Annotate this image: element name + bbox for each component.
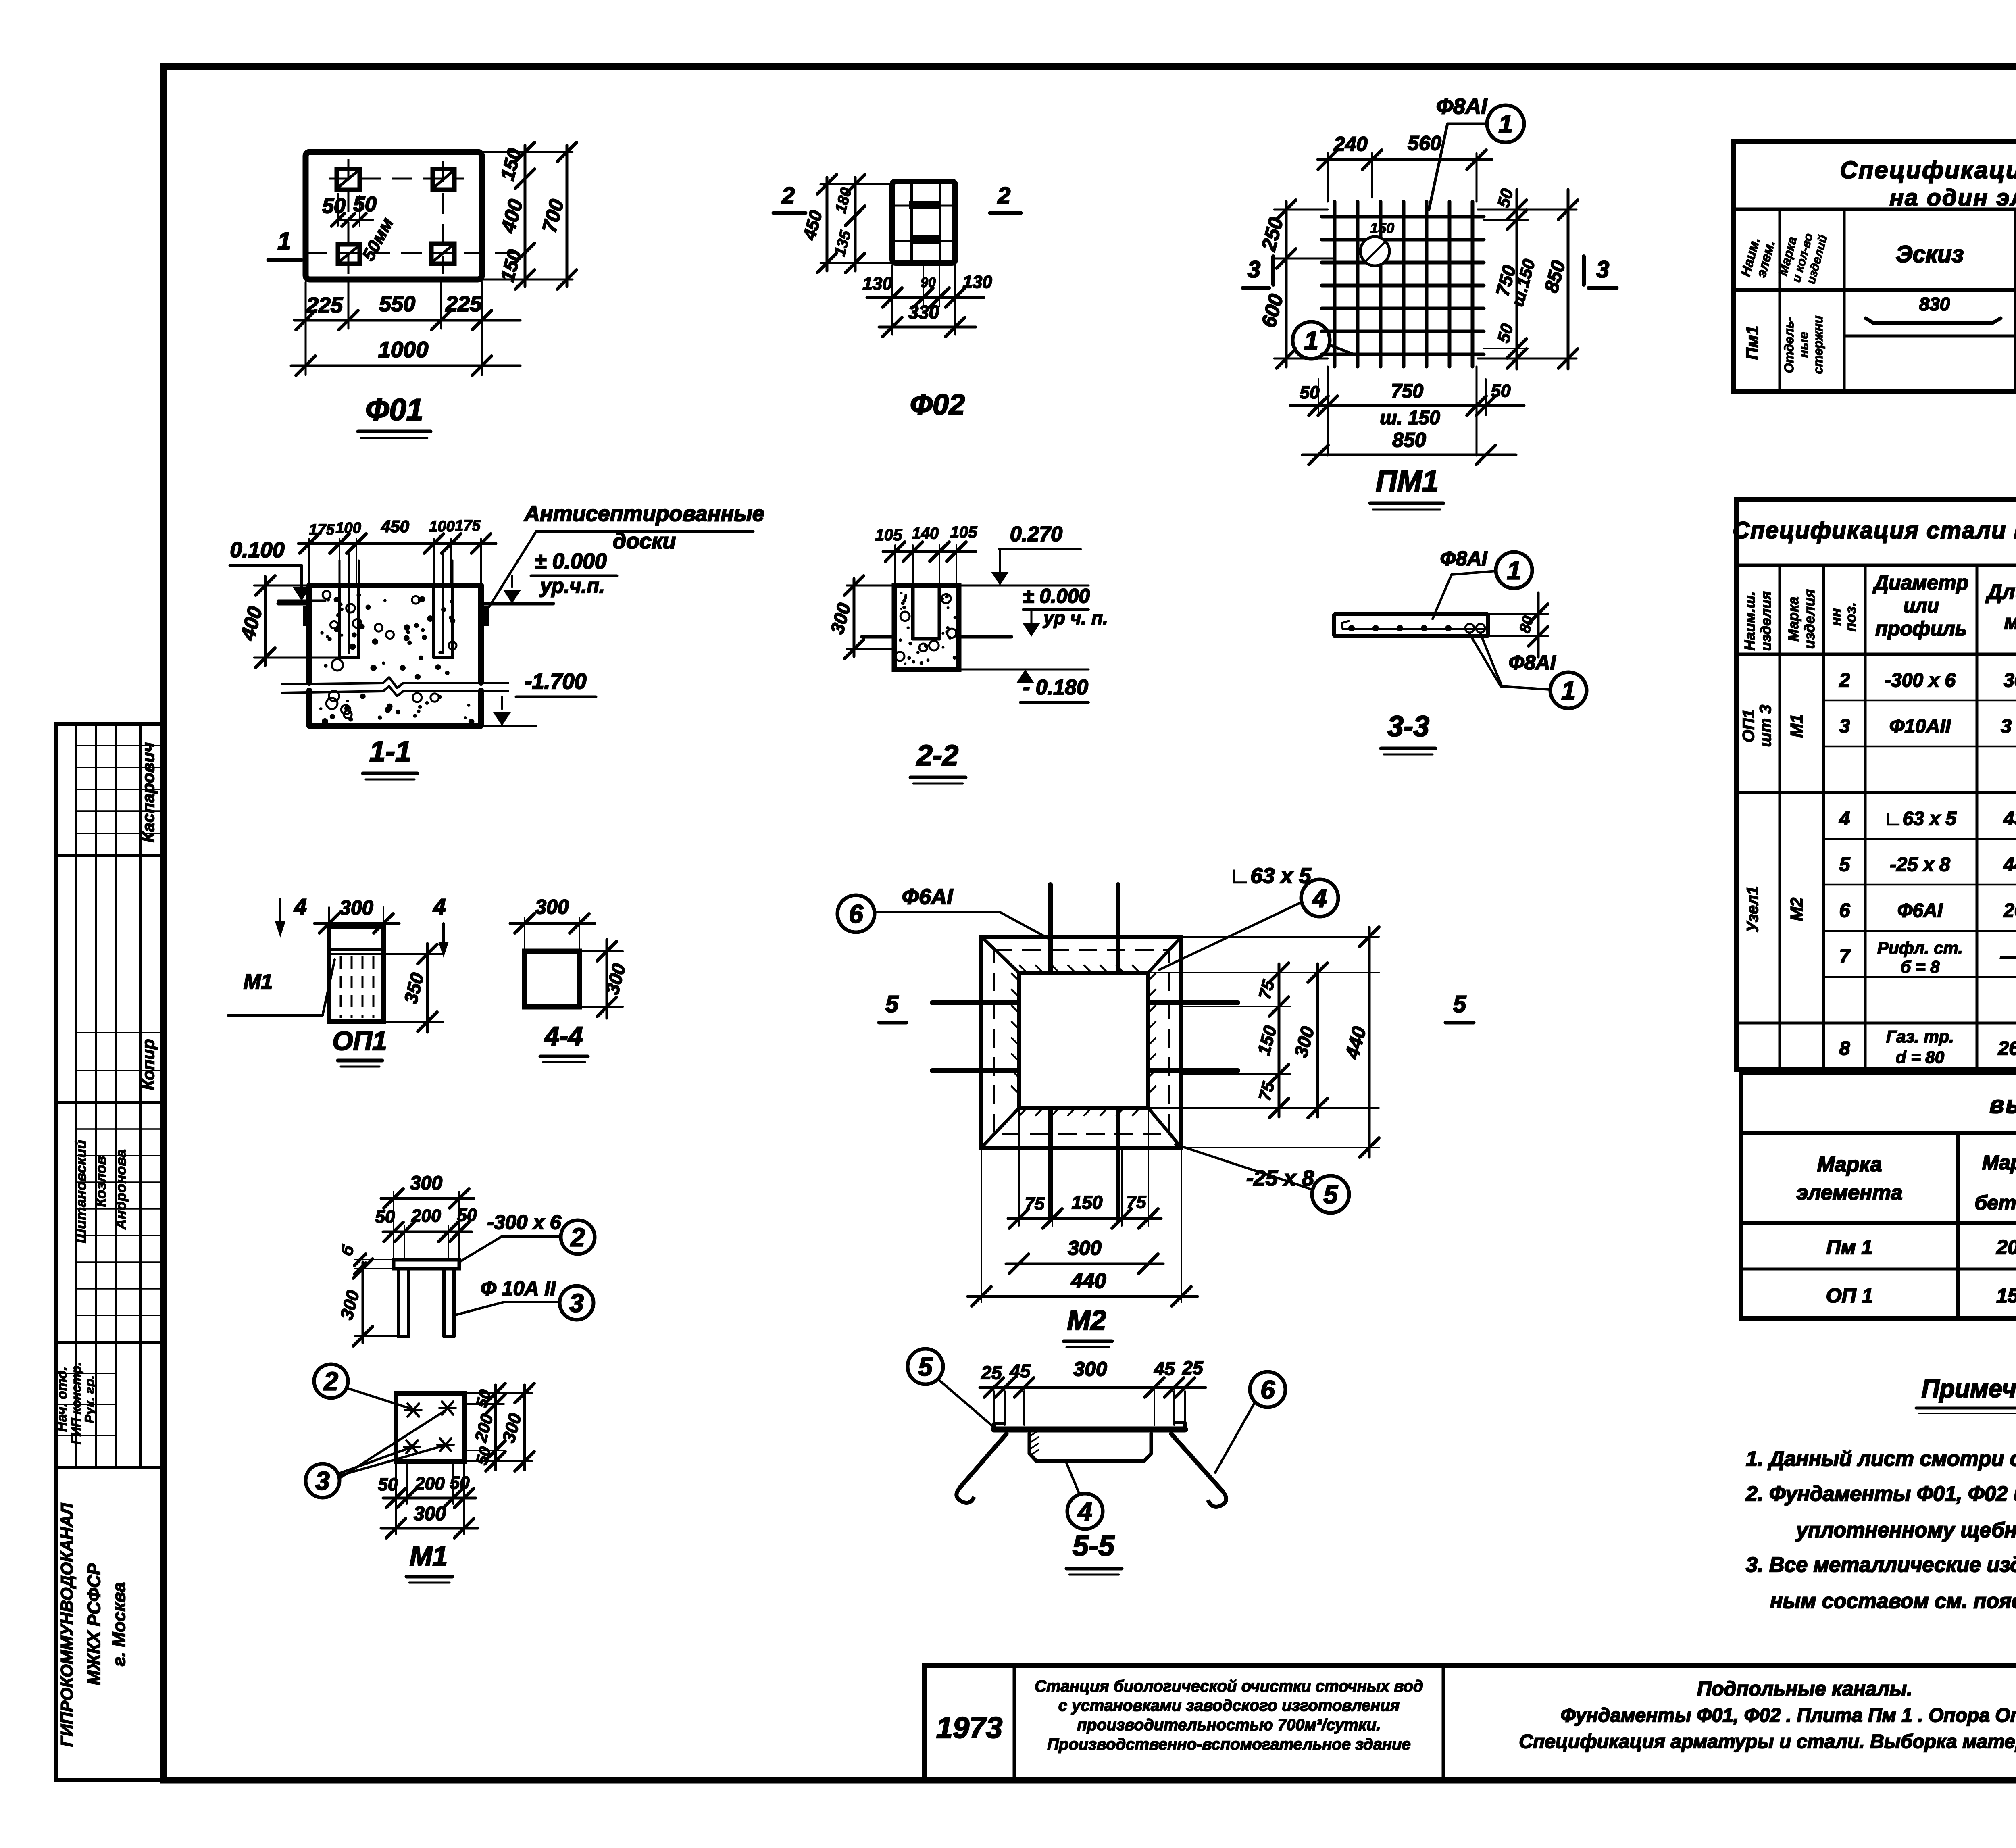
svg-text:1: 1 xyxy=(1304,326,1318,355)
svg-text:50: 50 xyxy=(375,1207,395,1227)
reinforcing mesh ПМ1 bars xyxy=(1333,202,1337,367)
svg-text:200: 200 xyxy=(1996,1236,2016,1258)
slab section 3-3 outline xyxy=(1334,614,1488,636)
svg-text:300: 300 xyxy=(1068,1237,1102,1259)
concrete block 1-1 outline xyxy=(309,583,481,588)
svg-text:25: 25 xyxy=(981,1362,1002,1383)
svg-text:1000: 1000 xyxy=(378,337,429,362)
svg-text:3: 3 xyxy=(1248,256,1260,283)
svg-text:М1: М1 xyxy=(410,1541,448,1571)
М1 top dim 50 200 50 xyxy=(404,1226,405,1260)
svg-text:4: 4 xyxy=(433,894,446,919)
svg-text:2: 2 xyxy=(997,183,1010,209)
svg-text:50: 50 xyxy=(450,1473,470,1493)
svg-text:7: 7 xyxy=(1839,946,1851,967)
svg-text:180: 180 xyxy=(832,186,855,215)
svg-text:Примечания.: Примечания. xyxy=(1922,1375,2016,1403)
svg-text:300: 300 xyxy=(2004,670,2016,691)
svg-text:± 0.000: ± 0.000 xyxy=(534,549,607,573)
svg-text:560: 560 xyxy=(1408,132,1441,154)
svg-text:5: 5 xyxy=(918,1352,933,1381)
svg-text:300: 300 xyxy=(410,1173,442,1194)
svg-text:225: 225 xyxy=(445,292,482,316)
Ф02 left dim 450 xyxy=(821,183,892,185)
svg-text:Ф10АII: Ф10АII xyxy=(1889,716,1951,737)
svg-text:3 00: 3 00 xyxy=(2001,716,2016,737)
М2 callout circle 6 Ф6АI xyxy=(837,895,875,932)
svg-text:150: 150 xyxy=(1072,1192,1103,1213)
3-3 rebar dots xyxy=(1343,628,1484,630)
5-5 channel below plate xyxy=(1029,1433,1151,1461)
М2 weld ticks on inner frame xyxy=(1020,965,1027,973)
ПМ1 callout circle 1 bottom-left xyxy=(1293,322,1330,359)
svg-text:Станция биологической очистки: Станция биологической очистки сточных во… xyxy=(1035,1677,1423,1695)
svg-text:нн: нн xyxy=(1827,608,1844,626)
svg-text:2. Фундаменты Ф01, Ф02 из: 2. Фундаменты Ф01, Ф02 из бетона марки 1… xyxy=(1745,1482,2016,1506)
М2 bottom dims 75 150 75 xyxy=(1018,1108,1020,1226)
4-4 top dim 300 xyxy=(524,917,525,951)
svg-text:100: 100 xyxy=(429,518,454,535)
М2 anchor rod bottom-left xyxy=(1048,1108,1053,1219)
svg-text:ГИП констр.: ГИП констр. xyxy=(69,1362,83,1444)
Ф01 bottom dim 225 550 225 xyxy=(305,282,307,375)
svg-text:50: 50 xyxy=(1493,187,1516,210)
М1 bottom view plate xyxy=(396,1393,464,1461)
svg-text:300: 300 xyxy=(499,1411,525,1445)
svg-text:550: 550 xyxy=(379,292,415,316)
ПМ1 bottom dim 850 xyxy=(1302,454,1516,456)
svg-text:Ф 10А II: Ф 10А II xyxy=(481,1277,556,1300)
svg-text:——: —— xyxy=(2000,946,2016,967)
svg-text:Ф8АI: Ф8АI xyxy=(1436,94,1487,119)
svg-text:ные: ные xyxy=(1796,332,1811,358)
М1 top view plate xyxy=(394,1260,459,1269)
svg-text:М1: М1 xyxy=(244,970,273,994)
svg-text:Фундаменты Ф01, Ф02 . Пли: Фундаменты Ф01, Ф02 . Плита Пм 1 . Опора… xyxy=(1560,1705,2016,1726)
svg-text:8: 8 xyxy=(1839,1038,1850,1059)
М2 callout circle 5 -25x8 xyxy=(1312,1176,1349,1213)
svg-text:200: 200 xyxy=(411,1206,441,1226)
table Спецификация стали xyxy=(1736,499,2016,1069)
svg-text:5-5: 5-5 xyxy=(1073,1530,1115,1562)
М1 bottom callout circle 2 xyxy=(314,1364,348,1398)
svg-text:с установками заводского изгот: с установками заводского изготовления xyxy=(1058,1697,1400,1715)
svg-text:4: 4 xyxy=(294,894,306,919)
svg-text:135: 135 xyxy=(831,229,854,258)
svg-text:производительностью 700м³/сутк: производительностью 700м³/сутки. xyxy=(1077,1716,1381,1734)
Ф02 left dim 180 135 xyxy=(854,177,857,271)
left stamp column xyxy=(56,724,163,1780)
svg-text:50: 50 xyxy=(1300,383,1320,402)
svg-text:240: 240 xyxy=(1333,133,1368,155)
М2 anchor rod bottom-right xyxy=(1116,1108,1120,1219)
М2 anchor rod left lower xyxy=(932,1068,1019,1073)
5-5 channel hatch xyxy=(1031,1431,1038,1435)
svg-text:3: 3 xyxy=(1839,716,1850,737)
М2 inner square xyxy=(1019,973,1148,1108)
М1 thickness dim 6 xyxy=(355,1259,394,1260)
svg-text:Андронова: Андронова xyxy=(112,1149,129,1230)
1-1 stipple concrete dots xyxy=(366,604,371,610)
5-5 top dims 25 45 300 45 25 xyxy=(993,1391,995,1425)
svg-text:260: 260 xyxy=(2003,900,2016,921)
svg-text:4: 4 xyxy=(1839,808,1850,829)
svg-text:ш. 150: ш. 150 xyxy=(1380,407,1440,429)
svg-text:450: 450 xyxy=(381,517,409,536)
svg-text:ур ч. п.: ур ч. п. xyxy=(1043,607,1108,628)
svg-text:Производственно-вспомогательно: Производственно-вспомогательное здание xyxy=(1047,1735,1411,1753)
svg-text:Шитановский: Шитановский xyxy=(73,1140,89,1243)
svg-text:600: 600 xyxy=(1257,292,1288,330)
svg-text:Рифл. ст.: Рифл. ст. xyxy=(1877,938,1963,957)
svg-text:Спецификация стали на одно: Спецификация стали на одно изделие xyxy=(1733,517,2016,544)
svg-text:- 0.180: - 0.180 xyxy=(1023,676,1088,699)
svg-text:ПМ1: ПМ1 xyxy=(1376,464,1439,498)
svg-text:6: 6 xyxy=(1839,900,1850,921)
svg-text:150: 150 xyxy=(1254,1023,1281,1057)
М2 anchor rod top-left xyxy=(1048,885,1053,973)
svg-text:б: б xyxy=(338,1243,358,1258)
5-5 callout circle 5 xyxy=(908,1349,943,1384)
section 1-1 top dims 175 100 450 100 175 xyxy=(308,539,310,585)
svg-text:200: 200 xyxy=(414,1474,445,1494)
Ф02 inner lines xyxy=(910,183,913,261)
svg-text:50: 50 xyxy=(1491,381,1511,401)
svg-text:175: 175 xyxy=(309,521,335,538)
ОП1 dashed rebars xyxy=(340,956,342,1018)
svg-text:1. Данный лист смотри со: 1. Данный лист смотри совместно с листом… xyxy=(1746,1447,2016,1471)
1-1 ground line xyxy=(278,602,309,606)
svg-text:Марка: Марка xyxy=(1785,596,1801,641)
svg-text:0.270: 0.270 xyxy=(1010,523,1062,546)
svg-text:300: 300 xyxy=(337,1288,363,1322)
Ф02 bottom dim 330 xyxy=(879,326,976,329)
svg-text:105: 105 xyxy=(950,523,977,541)
svg-text:430: 430 xyxy=(2003,808,2016,829)
svg-text:300: 300 xyxy=(339,896,373,919)
svg-text:б = 8: б = 8 xyxy=(1900,957,1940,976)
svg-text:440: 440 xyxy=(1071,1269,1106,1293)
svg-text:бетона: бетона xyxy=(1974,1192,2016,1214)
Ф01 anchor plate bottom-left xyxy=(338,244,360,264)
svg-text:4: 4 xyxy=(1312,883,1327,913)
svg-text:ОП 1: ОП 1 xyxy=(1826,1284,1873,1307)
svg-text:75: 75 xyxy=(1255,978,1278,1001)
Ф01 right dim 700 xyxy=(566,145,569,286)
svg-text:Антисептированные: Антисептированные xyxy=(523,502,764,526)
svg-text:3. Все металлические изделия: 3. Все металлические изделия окрасить ан… xyxy=(1746,1553,2016,1577)
Ф01 centerlines xyxy=(329,178,464,180)
svg-text:50: 50 xyxy=(1493,322,1516,345)
stamp thin row lines xyxy=(76,745,163,746)
foundation Ф01 plan outline xyxy=(306,152,482,279)
5-5 callout circle 4 xyxy=(1067,1494,1103,1529)
svg-text:Пм1: Пм1 xyxy=(1743,326,1762,360)
svg-text:ОП1: ОП1 xyxy=(332,1026,387,1056)
svg-text:изделия: изделия xyxy=(1801,589,1818,649)
5-5 left leg rod xyxy=(960,1434,1006,1488)
svg-text:200: 200 xyxy=(471,1412,497,1444)
svg-text:М2: М2 xyxy=(1787,898,1806,921)
svg-text:поз.: поз. xyxy=(1842,602,1859,631)
svg-text:Отдель-: Отдель- xyxy=(1782,317,1796,373)
svg-text:ур.ч.п.: ур.ч.п. xyxy=(539,575,605,597)
svg-text:300: 300 xyxy=(414,1503,446,1525)
Ф02 anchor bar upper xyxy=(909,201,939,209)
svg-text:2: 2 xyxy=(323,1367,338,1396)
svg-text:300: 300 xyxy=(1073,1358,1107,1380)
svg-text:Диаметр: Диаметр xyxy=(1872,571,1968,594)
svg-text:440: 440 xyxy=(1341,1024,1370,1061)
svg-text:5: 5 xyxy=(1323,1180,1338,1209)
Ф01 anchor plate top-right xyxy=(433,169,454,190)
foundation Ф02 elevation outline xyxy=(892,181,955,263)
svg-text:350: 350 xyxy=(400,971,428,1006)
1-1 ground hatch right xyxy=(481,606,489,626)
embedded plate 5-5 xyxy=(994,1427,1185,1433)
svg-text:Узел1: Узел1 xyxy=(1744,886,1762,932)
svg-text:Длина: Длина xyxy=(1985,580,2016,604)
svg-text:3: 3 xyxy=(569,1288,584,1317)
svg-text:МЖКХ РСФСР: МЖКХ РСФСР xyxy=(84,1563,104,1685)
2-2 left dim 300 xyxy=(847,585,894,587)
svg-text:Пм 1: Пм 1 xyxy=(1826,1236,1873,1258)
svg-text:3-3: 3-3 xyxy=(1387,710,1429,743)
svg-text:1: 1 xyxy=(1498,109,1513,138)
svg-text:-300 x 6: -300 x 6 xyxy=(487,1211,562,1233)
Ф02 bottom dims 130 130 xyxy=(891,265,893,335)
svg-text:850: 850 xyxy=(1541,258,1570,295)
ОП1 cap line xyxy=(329,948,383,951)
svg-text:М1: М1 xyxy=(1787,714,1806,738)
2-2 stipple xyxy=(899,638,902,642)
М1 callout circle 2 -300x6 xyxy=(561,1220,595,1254)
svg-text:300: 300 xyxy=(826,601,854,636)
М2 right dim 440 xyxy=(1181,936,1379,938)
М2 anchor rod right lower xyxy=(1148,1068,1238,1073)
Ф01 anchor plate top-left xyxy=(337,169,360,190)
М1 weld star marks xyxy=(405,1409,421,1411)
svg-text:105: 105 xyxy=(875,526,902,544)
2-2 ground line xyxy=(862,635,894,639)
svg-text:Козлов: Козлов xyxy=(92,1156,109,1207)
svg-text:Нач. отд.: Нач. отд. xyxy=(54,1367,70,1432)
svg-text:50: 50 xyxy=(378,1475,398,1494)
svg-text:Ф02: Ф02 xyxy=(910,389,965,421)
1-1 anchor slot left xyxy=(338,585,341,658)
svg-text:на один элемент: на один элемент xyxy=(1889,185,2016,211)
svg-text:стержни: стержни xyxy=(1811,315,1825,374)
svg-text:Ф6АI: Ф6АI xyxy=(1897,900,1943,921)
svg-text:250: 250 xyxy=(1257,215,1287,254)
svg-text:Каспарович: Каспарович xyxy=(139,742,158,842)
М2 bottom dim 300 xyxy=(1006,1263,1163,1265)
svg-text:2600: 2600 xyxy=(1998,1038,2016,1059)
svg-text:400: 400 xyxy=(236,604,267,643)
М2 outer square xyxy=(981,937,1181,1148)
svg-text:75: 75 xyxy=(1025,1194,1045,1214)
table Спецификация арматуры xyxy=(1734,141,2016,391)
svg-text:75: 75 xyxy=(1127,1192,1146,1212)
svg-text:элемента: элемента xyxy=(1796,1181,1902,1204)
М2 callout circle 4 ∟63x5 xyxy=(1301,879,1338,917)
М1 bottom dims 50 200 50 xyxy=(395,1461,397,1534)
М2 anchor rod left upper xyxy=(932,1000,1019,1005)
svg-text:Рук. гр.: Рук. гр. xyxy=(82,1375,97,1423)
svg-text:225: 225 xyxy=(306,293,343,317)
svg-text:1: 1 xyxy=(277,227,291,254)
М1 callout circle 3 Ф10АII xyxy=(560,1286,594,1320)
svg-text:330: 330 xyxy=(908,302,939,323)
М1 left dim 300 legs xyxy=(355,1335,398,1337)
svg-text:-1.700: -1.700 xyxy=(525,669,586,694)
svg-text:45: 45 xyxy=(1154,1358,1175,1379)
3-3 right thickness dim 80 xyxy=(1488,613,1548,615)
2-2 cavity xyxy=(911,585,915,639)
svg-text:140: 140 xyxy=(912,525,939,542)
svg-text:150: 150 xyxy=(1996,1284,2016,1307)
4-4 right dim 300 xyxy=(579,950,623,952)
svg-text:Газ. тр.: Газ. тр. xyxy=(1886,1027,1954,1046)
М1 right dims 50 200 50 xyxy=(464,1392,532,1394)
svg-text:Ф6АI: Ф6АI xyxy=(902,885,953,909)
svg-text:700: 700 xyxy=(538,197,569,235)
Ф01 anchor plate bottom-right xyxy=(431,244,454,264)
svg-text:профиль: профиль xyxy=(1875,617,1967,640)
svg-text:175: 175 xyxy=(455,517,481,534)
svg-text:± 0.000: ± 0.000 xyxy=(1023,585,1090,607)
М2 anchor rod right upper xyxy=(1148,1000,1238,1005)
ПМ1 bottom dim 50 750 50 xyxy=(1327,367,1329,456)
5-5 callout circle 6 xyxy=(1250,1372,1285,1407)
svg-text:440: 440 xyxy=(2003,854,2016,875)
2-2 level -0.180 xyxy=(959,669,1089,671)
svg-text:ОП1: ОП1 xyxy=(1740,709,1758,742)
М1 top dim 300 xyxy=(393,1192,394,1260)
svg-text:5: 5 xyxy=(885,991,899,1017)
svg-text:75: 75 xyxy=(1255,1079,1278,1103)
svg-text:3: 3 xyxy=(1596,256,1609,283)
1-1 ground hatch left xyxy=(303,606,309,626)
table Выборка материалов xyxy=(1741,1072,2016,1319)
column ОП1 outline xyxy=(329,926,383,1022)
svg-text:Копир: Копир xyxy=(139,1039,158,1090)
svg-text:6: 6 xyxy=(849,899,863,928)
table2 row lines xyxy=(1824,700,2016,702)
svg-text:∟63 x 5: ∟63 x 5 xyxy=(1229,864,1311,888)
svg-text:или: или xyxy=(1904,595,1939,617)
Ф01 bottom dim 1000 xyxy=(291,365,520,367)
svg-text:1973: 1973 xyxy=(936,1711,1003,1744)
svg-text:Спецификация арматуры: Спецификация арматуры xyxy=(1840,156,2016,183)
Ф02 anchor bar lower xyxy=(911,235,941,244)
2-2 top dims 105 140 105 xyxy=(894,545,896,583)
svg-text:5: 5 xyxy=(1839,854,1851,875)
svg-text:ГИПРОКОММУНВОДОКАНАЛ: ГИПРОКОММУНВОДОКАНАЛ xyxy=(57,1503,76,1747)
М1 bottom callout circle 3 xyxy=(306,1464,339,1498)
svg-text:мм: мм xyxy=(2004,610,2016,634)
svg-text:25: 25 xyxy=(1182,1357,1204,1378)
svg-text:доски: доски xyxy=(613,529,676,553)
svg-text:45: 45 xyxy=(1009,1360,1031,1381)
svg-text:выборка материалов: выборка материалов xyxy=(1989,1091,2016,1118)
Ф01 right dim 150 400 150 xyxy=(482,151,573,153)
svg-text:4-4: 4-4 xyxy=(544,1021,583,1051)
svg-text:Наим.ш.: Наим.ш. xyxy=(1741,592,1758,651)
svg-text:90: 90 xyxy=(921,275,936,290)
svg-text:1-1: 1-1 xyxy=(369,735,411,768)
svg-text:0.100: 0.100 xyxy=(230,538,284,562)
svg-text:2: 2 xyxy=(781,183,795,209)
svg-text:2: 2 xyxy=(1839,670,1850,691)
svg-text:50: 50 xyxy=(457,1205,477,1225)
ОП1 right dim 350 xyxy=(383,953,444,955)
1-1 anchor slot right xyxy=(432,585,435,658)
svg-text:300: 300 xyxy=(535,896,569,918)
svg-text:150: 150 xyxy=(1370,220,1394,236)
svg-text:Марка: Марка xyxy=(1982,1151,2016,1174)
svg-text:Эскиз: Эскиз xyxy=(1896,241,1964,267)
svg-text:Ф01: Ф01 xyxy=(365,393,423,427)
svg-text:шт 3: шт 3 xyxy=(1757,705,1774,747)
5-5 right leg rod xyxy=(1171,1434,1223,1491)
М2 anchor rod top-right xyxy=(1116,885,1120,973)
title block xyxy=(924,1666,2016,1780)
ПМ1 right dim 50 750 50 xyxy=(1478,209,1577,211)
svg-text:1: 1 xyxy=(1507,556,1521,585)
1-1 break lines xyxy=(282,677,508,688)
М2 corner mitre joints xyxy=(981,937,1019,973)
ПМ1 left dim 250 600 xyxy=(1274,209,1328,211)
М1 right dim 300 xyxy=(523,1385,526,1470)
svg-text:830: 830 xyxy=(1919,294,1950,315)
svg-text:-25 x 8: -25 x 8 xyxy=(1890,854,1950,875)
ПМ1 right dim 850 xyxy=(1567,190,1570,369)
svg-text:400: 400 xyxy=(496,197,527,235)
svg-text:130: 130 xyxy=(962,272,992,292)
М1 top view legs xyxy=(397,1269,400,1336)
plate 4-4 outline xyxy=(525,951,579,1007)
svg-text:6: 6 xyxy=(1260,1375,1275,1404)
svg-text:850: 850 xyxy=(1392,429,1426,451)
svg-text:Ф8АI: Ф8АI xyxy=(1440,547,1488,570)
svg-text:4: 4 xyxy=(1077,1497,1092,1526)
М1 bottom dim 300 xyxy=(381,1527,478,1530)
svg-text:5: 5 xyxy=(1453,991,1466,1017)
svg-text:1: 1 xyxy=(1561,676,1576,705)
svg-text:750: 750 xyxy=(1391,381,1423,402)
М2 right dim 300 xyxy=(1316,964,1319,1117)
svg-text:Ф8АI: Ф8АI xyxy=(1509,651,1556,674)
svg-text:130: 130 xyxy=(862,274,892,294)
svg-text:3: 3 xyxy=(315,1466,330,1495)
svg-text:-300 x 6: -300 x 6 xyxy=(1885,670,1956,691)
concrete section 2-2 outline xyxy=(894,585,959,669)
svg-text:изделия: изделия xyxy=(1758,591,1774,651)
svg-text:ным составом см. пояснител: ным составом см. пояснительную записку xyxy=(1770,1590,2016,1613)
svg-text:100: 100 xyxy=(335,520,361,537)
М2 right dims 75 150 75 xyxy=(1148,972,1379,973)
svg-text:d = 80: d = 80 xyxy=(1896,1048,1944,1067)
ПМ1 top dim 240 560 xyxy=(1327,153,1329,202)
svg-text:∟63 x 5: ∟63 x 5 xyxy=(1884,808,1957,829)
svg-text:Спецификация арматуры и ста: Спецификация арматуры и стали. Выборка м… xyxy=(1519,1731,2016,1752)
svg-text:2: 2 xyxy=(570,1223,585,1252)
svg-text:Марка: Марка xyxy=(1817,1153,1882,1176)
svg-text:50мм: 50мм xyxy=(358,214,398,264)
svg-text:М2: М2 xyxy=(1067,1304,1106,1336)
svg-text:2-2: 2-2 xyxy=(916,740,958,772)
